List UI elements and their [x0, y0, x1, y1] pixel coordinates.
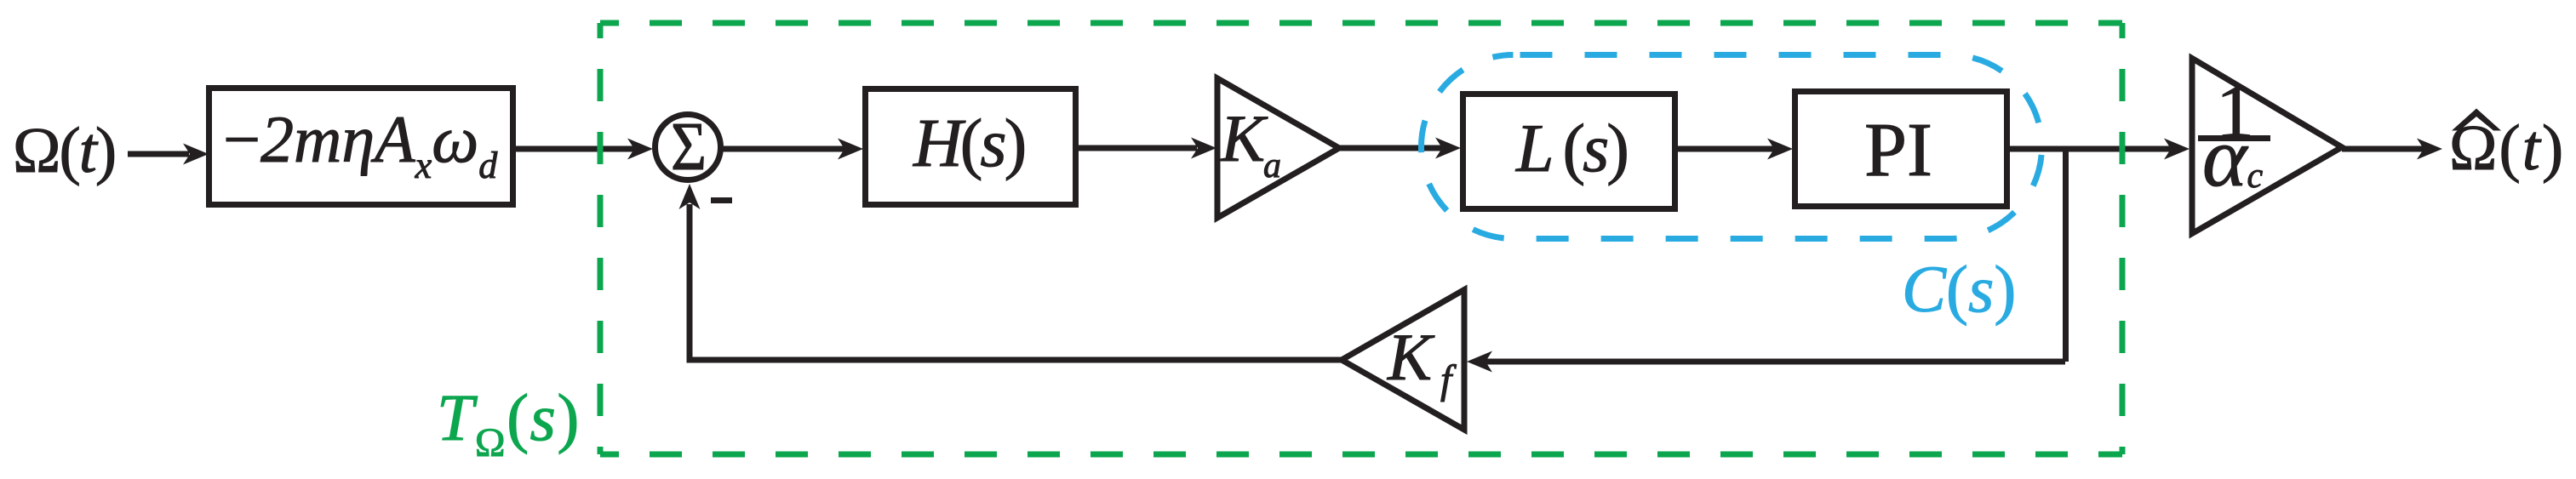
block H(s) — [866, 89, 1076, 205]
svg-text:−2mηAxωd: −2mηAxωd — [223, 102, 498, 186]
svg-text:Σ: Σ — [671, 110, 707, 185]
block -2mnAxwd — [209, 88, 513, 205]
svg-text:PI: PI — [1864, 108, 1932, 192]
arrowhead into PI — [1767, 139, 1793, 160]
arrowhead into gain block — [183, 144, 209, 165]
wire summer to H(s) — [720, 146, 844, 152]
dashed green box T_Omega(s) — [600, 23, 2122, 454]
arrowhead into Kf — [1467, 351, 1492, 373]
wire gain block to summer — [514, 146, 634, 152]
wire input to gain block — [128, 151, 189, 157]
dashed blue rounded box C(s) — [1422, 55, 2042, 239]
gain 1/ac triangle — [2192, 59, 2342, 234]
wire L(s) to PI — [1675, 146, 1774, 152]
svg-text:TΩ(s): TΩ(s) — [437, 380, 581, 465]
svg-text:H(s): H(s) — [913, 106, 1025, 181]
gain Ka triangle — [1217, 78, 1339, 218]
arrowhead into output gain — [2164, 139, 2190, 160]
block L(s) — [1463, 94, 1675, 209]
minus sign at summer feedback input — [711, 197, 732, 203]
arrowhead into Ka — [1191, 138, 1216, 159]
wire feedback left segment and up to summer — [690, 204, 1343, 360]
wire output gain to output — [2342, 146, 2424, 152]
wire Ka to L(s) — [1340, 145, 1442, 151]
arrowhead into H(s) — [838, 139, 863, 160]
arrowhead into L(s) — [1435, 138, 1461, 159]
wire feedback tap vertical — [2063, 149, 2069, 362]
arrowhead output — [2417, 139, 2442, 160]
summer U1 circle — [655, 115, 721, 180]
wire PI to output gain — [2007, 146, 2171, 152]
arrowhead up into summer — [679, 184, 701, 209]
arrowhead into summer — [627, 139, 653, 160]
wire H(s) to Ka — [1075, 145, 1197, 151]
svg-text:C(s): C(s) — [1902, 252, 2016, 326]
block PI — [1795, 92, 2007, 207]
gain Kf triangle (points left) — [1342, 290, 1464, 431]
svg-text:Ω(t): Ω(t) — [13, 115, 115, 186]
hat over output Omega — [2452, 109, 2501, 131]
svg-text:L (s): L (s) — [1515, 111, 1627, 186]
wire feedback horizontal right segment — [1485, 359, 2065, 365]
